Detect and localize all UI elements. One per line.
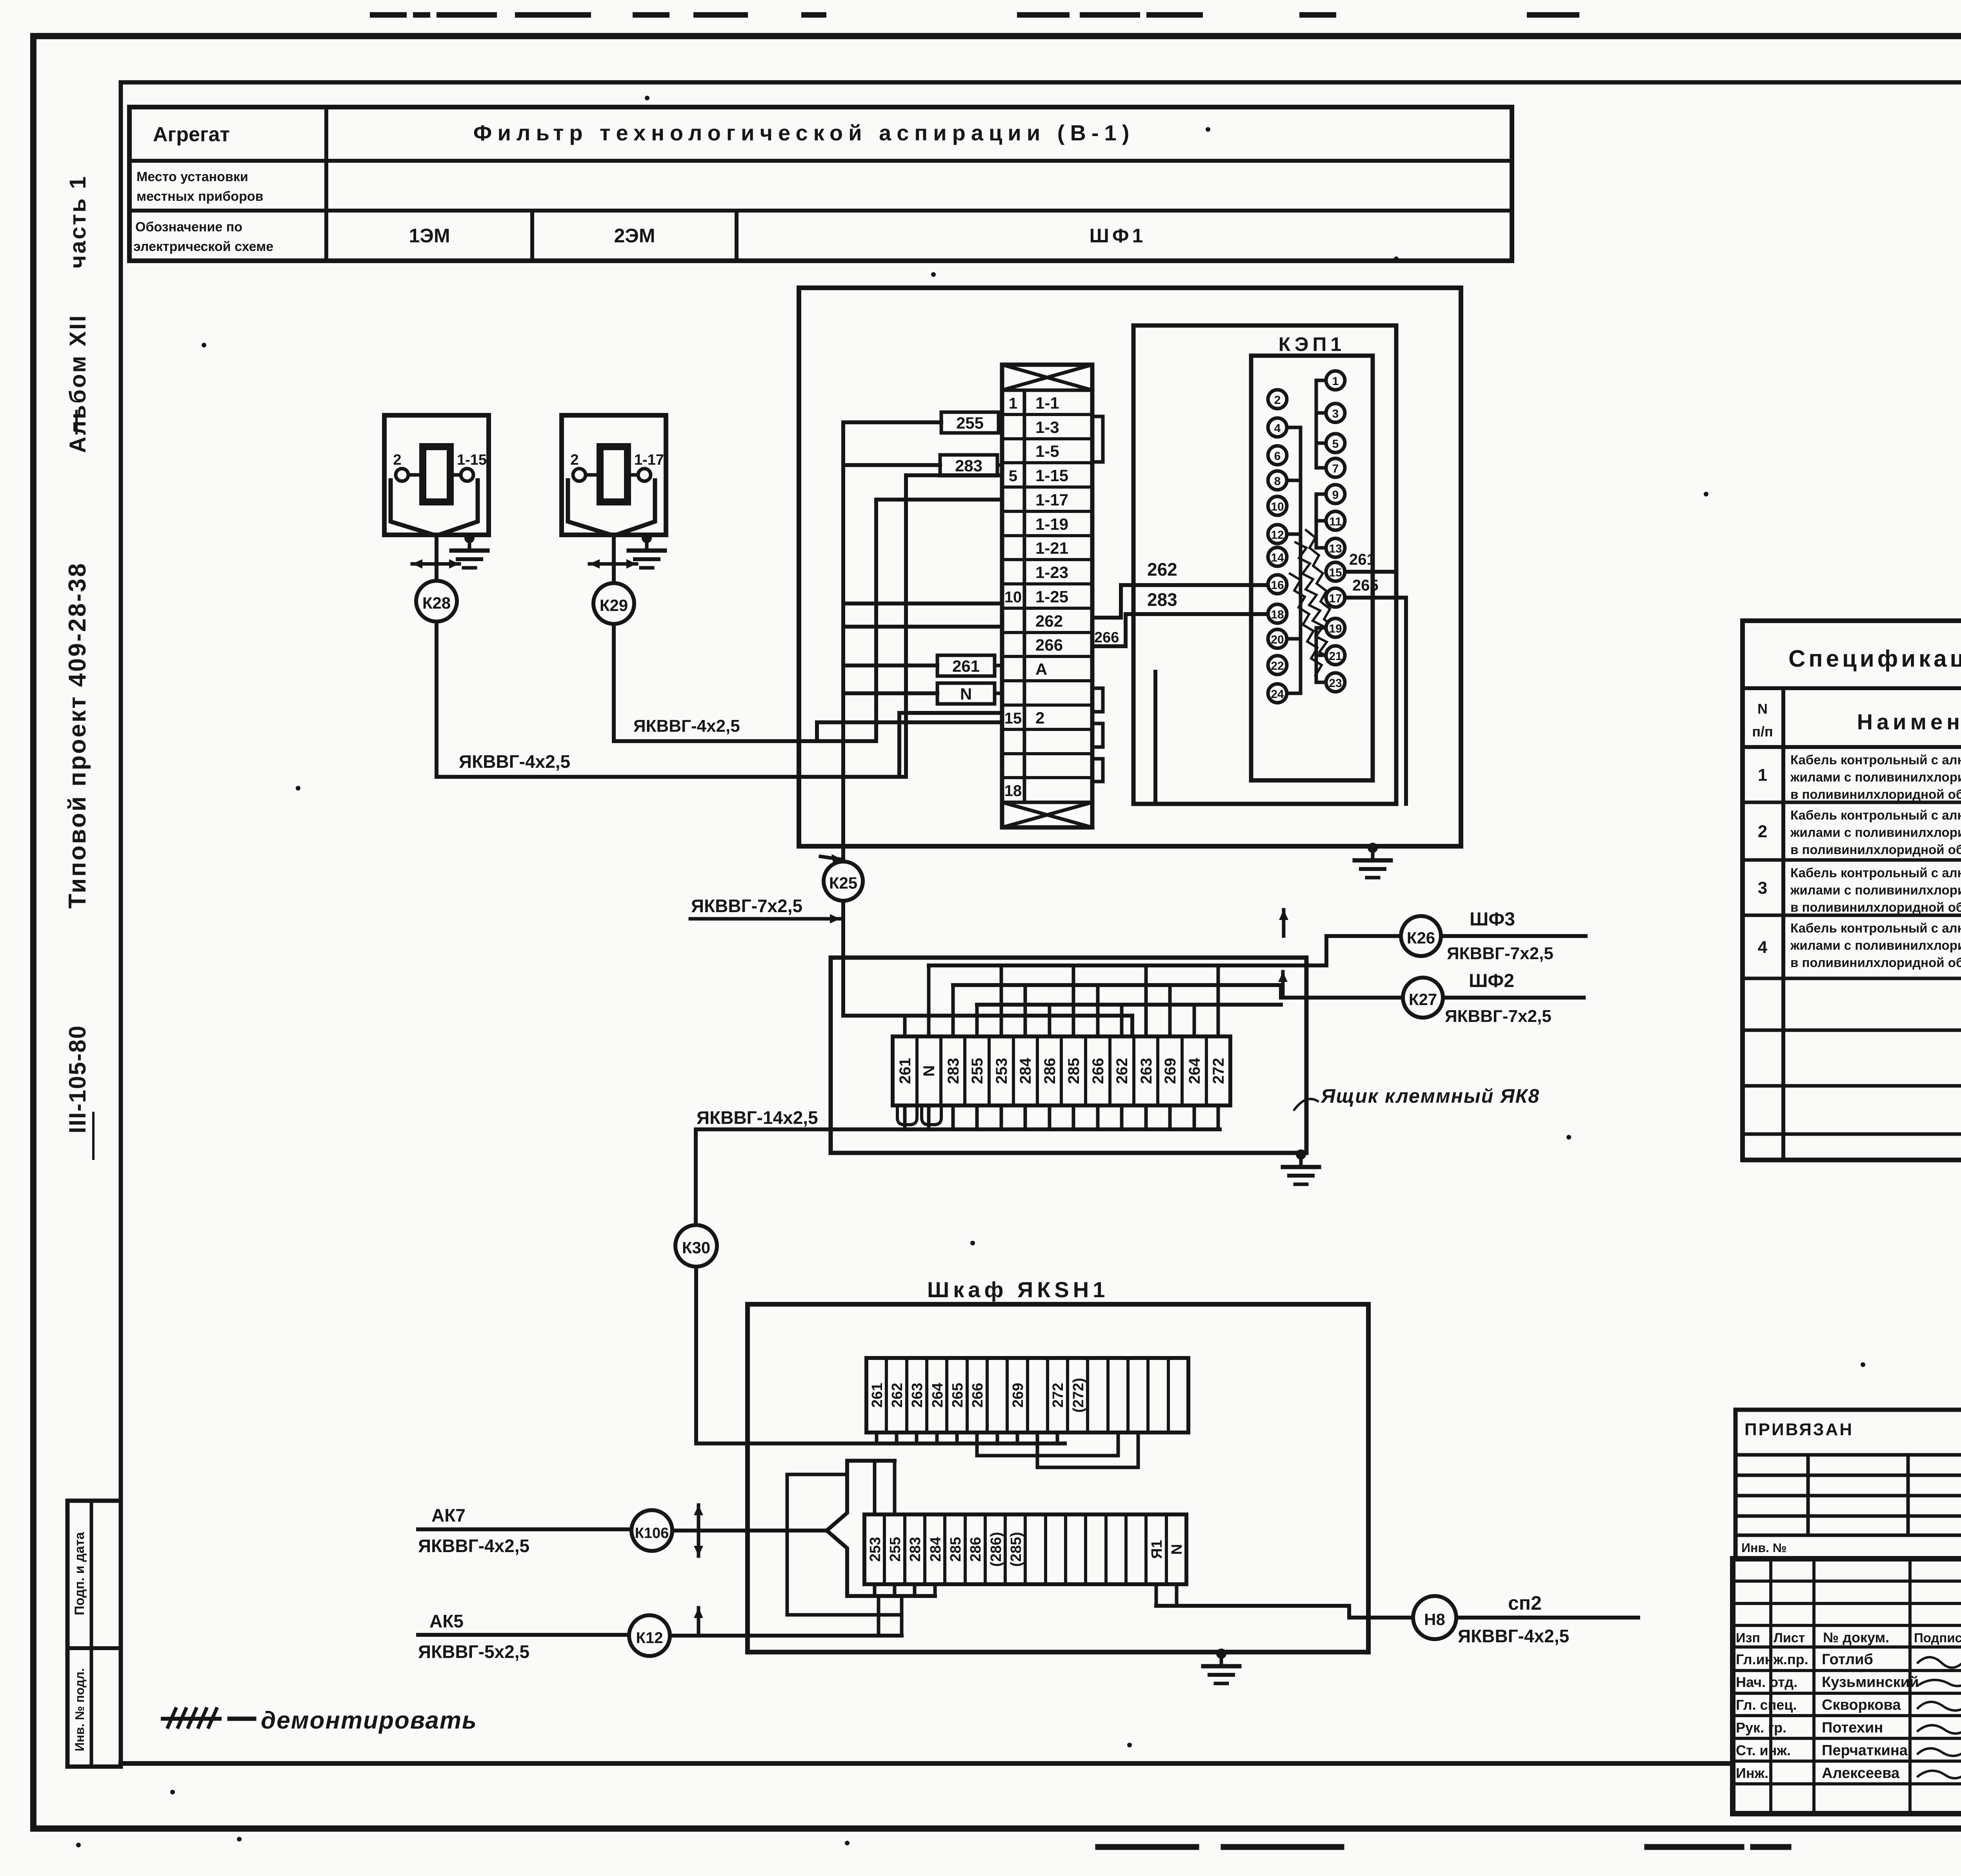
svg-text:Наименование: Наименование xyxy=(1857,709,1961,734)
svg-text:п/п: п/п xyxy=(1752,723,1773,740)
svg-text:Типовой проект 409-28-38: Типовой проект 409-28-38 xyxy=(64,562,91,909)
svg-text:К27: К27 xyxy=(1409,990,1437,1009)
svg-text:12: 12 xyxy=(1271,529,1284,542)
svg-text:К25: К25 xyxy=(829,874,857,892)
svg-text:Изп: Изп xyxy=(1736,1631,1760,1645)
svg-text:286: 286 xyxy=(968,1537,984,1562)
svg-text:ШФ2: ШФ2 xyxy=(1469,971,1514,991)
svg-text:13: 13 xyxy=(1329,542,1342,555)
svg-text:1-3: 1-3 xyxy=(1035,418,1059,436)
svg-text:АК7: АК7 xyxy=(431,1505,466,1525)
svg-text:18: 18 xyxy=(1271,608,1284,621)
svg-text:4: 4 xyxy=(1274,422,1281,435)
svg-text:6: 6 xyxy=(1274,450,1281,463)
svg-text:Кузьминский: Кузьминский xyxy=(1822,1674,1919,1691)
svg-text:N: N xyxy=(920,1065,938,1077)
svg-text:5: 5 xyxy=(1009,467,1017,485)
svg-text:АК5: АК5 xyxy=(429,1611,464,1631)
svg-text:1-15: 1-15 xyxy=(457,452,487,468)
svg-text:1-19: 1-19 xyxy=(1035,515,1068,533)
svg-text:Обозначение по: Обозначение по xyxy=(135,220,242,234)
svg-text:2: 2 xyxy=(393,452,401,468)
svg-text:285: 285 xyxy=(948,1537,964,1562)
svg-text:5: 5 xyxy=(1332,438,1339,451)
svg-text:261: 261 xyxy=(1349,551,1375,568)
svg-text:ШФ1: ШФ1 xyxy=(1090,225,1146,247)
svg-text:7: 7 xyxy=(1332,462,1339,475)
svg-text:Шкаф ЯКSH1: Шкаф ЯКSH1 xyxy=(927,1277,1109,1302)
svg-text:К12: К12 xyxy=(636,1629,663,1647)
svg-text:Гл.инж.пр.: Гл.инж.пр. xyxy=(1736,1651,1808,1667)
svg-text:Готлиб: Готлиб xyxy=(1822,1651,1873,1668)
svg-text:Нач. отд.: Нач. отд. xyxy=(1736,1674,1797,1690)
svg-text:266: 266 xyxy=(1035,636,1063,654)
svg-text:4: 4 xyxy=(1758,938,1768,957)
svg-text:17: 17 xyxy=(1329,592,1342,605)
svg-text:265: 265 xyxy=(1352,577,1379,594)
svg-text:1-25: 1-25 xyxy=(1035,587,1068,606)
svg-text:Н8: Н8 xyxy=(1424,1610,1445,1629)
svg-text:253: 253 xyxy=(993,1058,1010,1084)
svg-text:ЯКВВГ-4х2,5: ЯКВВГ-4х2,5 xyxy=(633,716,740,736)
svg-text:Спецификация основных рабочи: Спецификация основных рабочих материалов xyxy=(1788,645,1961,672)
svg-text:2ЭМ: 2ЭМ xyxy=(614,225,655,247)
svg-text:1-17: 1-17 xyxy=(634,452,664,468)
svg-text:Кабель контрольный с алюминиев: Кабель контрольный с алюминиевыми xyxy=(1790,753,1961,767)
svg-text:местных приборов: местных приборов xyxy=(136,189,264,204)
svg-text:Рук. гр.: Рук. гр. xyxy=(1736,1720,1786,1736)
svg-text:часть 1: часть 1 xyxy=(65,175,91,269)
svg-text:272: 272 xyxy=(1050,1383,1066,1407)
svg-text:8: 8 xyxy=(1274,475,1281,488)
svg-text:ЯКВВГ-7х2,5: ЯКВВГ-7х2,5 xyxy=(1445,1007,1552,1026)
svg-text:электрической схеме: электрической схеме xyxy=(133,239,273,254)
svg-text:ЯКВВГ-5х2,5: ЯКВВГ-5х2,5 xyxy=(418,1641,529,1662)
svg-text:1-21: 1-21 xyxy=(1035,539,1068,557)
svg-text:Кабель контрольный с алюминиев: Кабель контрольный с алюминиевыми xyxy=(1790,865,1961,880)
svg-text:20: 20 xyxy=(1271,633,1284,646)
svg-text:Перчаткина: Перчаткина xyxy=(1822,1742,1908,1759)
svg-text:1-23: 1-23 xyxy=(1035,563,1068,582)
svg-text:жилами с поливинилхлоридной из: жилами с поливинилхлоридной изоляцией xyxy=(1790,825,1961,840)
svg-text:269: 269 xyxy=(1010,1383,1026,1407)
svg-text:К29: К29 xyxy=(600,596,628,614)
svg-text:в поливинилхлоридной оболочке: в поливинилхлоридной оболочке xyxy=(1790,955,1961,970)
svg-text:2: 2 xyxy=(570,452,578,468)
svg-text:Я1: Я1 xyxy=(1149,1540,1165,1559)
svg-text:263: 263 xyxy=(1138,1058,1155,1084)
svg-text:Подпись: Подпись xyxy=(1914,1631,1961,1645)
svg-text:Место установки: Место установки xyxy=(136,169,248,184)
svg-text:Кабель контрольный с алюминиев: Кабель контрольный с алюминиевыми xyxy=(1790,808,1961,822)
svg-text:Ст. инж.: Ст. инж. xyxy=(1736,1742,1791,1758)
svg-text:Фильтр технологической асп: Фильтр технологической аспирации (В-1) xyxy=(473,120,1135,145)
svg-text:253: 253 xyxy=(867,1537,884,1562)
svg-text:262: 262 xyxy=(889,1383,906,1407)
svg-text:262: 262 xyxy=(1147,559,1177,580)
svg-text:19: 19 xyxy=(1329,622,1342,635)
svg-text:Кабель контрольный с алюминиев: Кабель контрольный с алюминиевыми xyxy=(1790,921,1961,935)
svg-text:К106: К106 xyxy=(635,1525,669,1542)
svg-text:283: 283 xyxy=(907,1537,924,1562)
svg-text:Скворкова: Скворкова xyxy=(1822,1697,1901,1713)
svg-text:16: 16 xyxy=(1271,579,1284,592)
svg-text:15: 15 xyxy=(1004,710,1022,727)
svg-text:263: 263 xyxy=(909,1383,926,1407)
svg-text:262: 262 xyxy=(1035,612,1063,630)
svg-text:1ЭМ: 1ЭМ xyxy=(409,225,450,247)
svg-text:261: 261 xyxy=(897,1058,914,1084)
svg-text:Лист: Лист xyxy=(1774,1631,1805,1645)
svg-text:(286): (286) xyxy=(988,1532,1004,1567)
svg-text:285: 285 xyxy=(1065,1058,1082,1084)
svg-text:ЯКВВГ-4х2,5: ЯКВВГ-4х2,5 xyxy=(418,1536,529,1556)
svg-text:жилами с поливинилхлоридной из: жилами с поливинилхлоридной изоляцией xyxy=(1790,770,1961,784)
svg-text:24: 24 xyxy=(1271,688,1284,701)
svg-text:14: 14 xyxy=(1271,551,1284,564)
svg-text:ЯКВВГ-4х2,5: ЯКВВГ-4х2,5 xyxy=(459,751,570,772)
svg-text:261: 261 xyxy=(869,1383,886,1407)
svg-text:Подп. и дата: Подп. и дата xyxy=(72,1532,87,1615)
svg-text:в поливинилхлоридной оболочке: в поливинилхлоридной оболочке xyxy=(1790,842,1961,857)
svg-text:18: 18 xyxy=(1004,782,1022,800)
svg-text:N: N xyxy=(960,685,972,703)
svg-text:283: 283 xyxy=(955,456,982,475)
svg-text:Альбом XII: Альбом XII xyxy=(65,314,91,453)
svg-text:1: 1 xyxy=(1009,395,1017,412)
svg-text:266: 266 xyxy=(1094,629,1119,646)
svg-text:283: 283 xyxy=(1147,589,1177,610)
svg-text:ЯКВВГ-4х2,5: ЯКВВГ-4х2,5 xyxy=(1458,1626,1569,1646)
svg-text:(285): (285) xyxy=(1008,1532,1024,1567)
svg-text:3: 3 xyxy=(1758,878,1767,898)
svg-text:283: 283 xyxy=(945,1058,962,1084)
svg-text:261: 261 xyxy=(952,657,980,675)
svg-text:1-5: 1-5 xyxy=(1035,442,1059,460)
svg-text:ЯКВВГ-7х2,5: ЯКВВГ-7х2,5 xyxy=(1447,944,1554,963)
svg-text:1-1: 1-1 xyxy=(1035,394,1059,412)
svg-text:10: 10 xyxy=(1271,500,1284,513)
svg-text:1: 1 xyxy=(1332,375,1339,388)
svg-text:10: 10 xyxy=(1004,589,1022,606)
svg-text:А: А xyxy=(1035,660,1047,678)
svg-text:КЭП1: КЭП1 xyxy=(1279,333,1345,355)
svg-text:264: 264 xyxy=(930,1383,946,1407)
svg-text:К28: К28 xyxy=(422,594,451,612)
svg-text:ЯКВВГ-14х2,5: ЯКВВГ-14х2,5 xyxy=(697,1107,818,1128)
svg-text:N: N xyxy=(1169,1544,1185,1554)
svg-text:284: 284 xyxy=(928,1537,944,1562)
svg-text:266: 266 xyxy=(1090,1058,1107,1084)
svg-text:9: 9 xyxy=(1332,489,1339,502)
svg-text:1: 1 xyxy=(1758,765,1767,785)
svg-text:266: 266 xyxy=(970,1383,986,1407)
svg-text:255: 255 xyxy=(887,1537,904,1562)
svg-text:255: 255 xyxy=(969,1058,986,1084)
svg-text:в поливинилхлоридной оболочке: в поливинилхлоридной оболочке xyxy=(1790,900,1961,914)
svg-text:11: 11 xyxy=(1329,515,1342,528)
svg-text:Инв. № подл.: Инв. № подл. xyxy=(73,1668,87,1751)
svg-text:Инв. №: Инв. № xyxy=(1741,1541,1786,1555)
svg-text:1-15: 1-15 xyxy=(1035,466,1068,485)
svg-text:22: 22 xyxy=(1271,660,1284,673)
svg-text:N: N xyxy=(1757,701,1768,717)
svg-text:в поливинилхлоридной оболочке: в поливинилхлоридной оболочке xyxy=(1790,787,1961,802)
svg-text:2: 2 xyxy=(1035,709,1044,727)
svg-text:Ящик клеммный ЯК8: Ящик клеммный ЯК8 xyxy=(1320,1085,1540,1107)
svg-text:ПРИВЯЗАН: ПРИВЯЗАН xyxy=(1745,1420,1854,1439)
svg-text:III-105-80: III-105-80 xyxy=(64,1025,91,1134)
svg-text:Потехин: Потехин xyxy=(1822,1720,1883,1736)
svg-text:Алексеева: Алексеева xyxy=(1822,1765,1900,1781)
svg-text:жилами с поливинилхлоридной из: жилами с поливинилхлоридной изоляцией xyxy=(1790,883,1961,897)
svg-text:2: 2 xyxy=(1758,822,1767,841)
svg-text:262: 262 xyxy=(1113,1058,1131,1084)
svg-text:1-17: 1-17 xyxy=(1035,491,1068,509)
svg-text:(272): (272) xyxy=(1070,1378,1087,1413)
svg-text:23: 23 xyxy=(1329,677,1342,690)
svg-text:ШФ3: ШФ3 xyxy=(1470,909,1515,930)
svg-text:272: 272 xyxy=(1210,1058,1227,1084)
svg-text:Гл. спец.: Гл. спец. xyxy=(1736,1697,1797,1713)
svg-text:сп2: сп2 xyxy=(1508,1592,1542,1614)
svg-text:264: 264 xyxy=(1186,1058,1203,1084)
svg-text:К30: К30 xyxy=(682,1238,710,1257)
svg-text:№ докум.: № докум. xyxy=(1823,1629,1889,1645)
svg-text:Инж.: Инж. xyxy=(1736,1765,1768,1781)
svg-text:286: 286 xyxy=(1041,1058,1059,1084)
svg-text:3: 3 xyxy=(1332,407,1339,420)
svg-text:2: 2 xyxy=(1274,394,1281,407)
svg-text:жилами с поливинилхлоридной из: жилами с поливинилхлоридной изоляцией xyxy=(1790,938,1961,953)
svg-text:255: 255 xyxy=(956,414,984,432)
svg-text:Агрегат: Агрегат xyxy=(153,123,230,146)
svg-text:269: 269 xyxy=(1162,1058,1179,1084)
svg-text:21: 21 xyxy=(1329,650,1342,663)
svg-text:демонтировать: демонтировать xyxy=(261,1707,477,1734)
svg-text:265: 265 xyxy=(950,1383,966,1407)
svg-text:15: 15 xyxy=(1329,566,1342,579)
svg-text:К26: К26 xyxy=(1407,929,1435,947)
svg-text:ЯКВВГ-7х2,5: ЯКВВГ-7х2,5 xyxy=(691,896,802,916)
svg-text:284: 284 xyxy=(1017,1058,1034,1084)
